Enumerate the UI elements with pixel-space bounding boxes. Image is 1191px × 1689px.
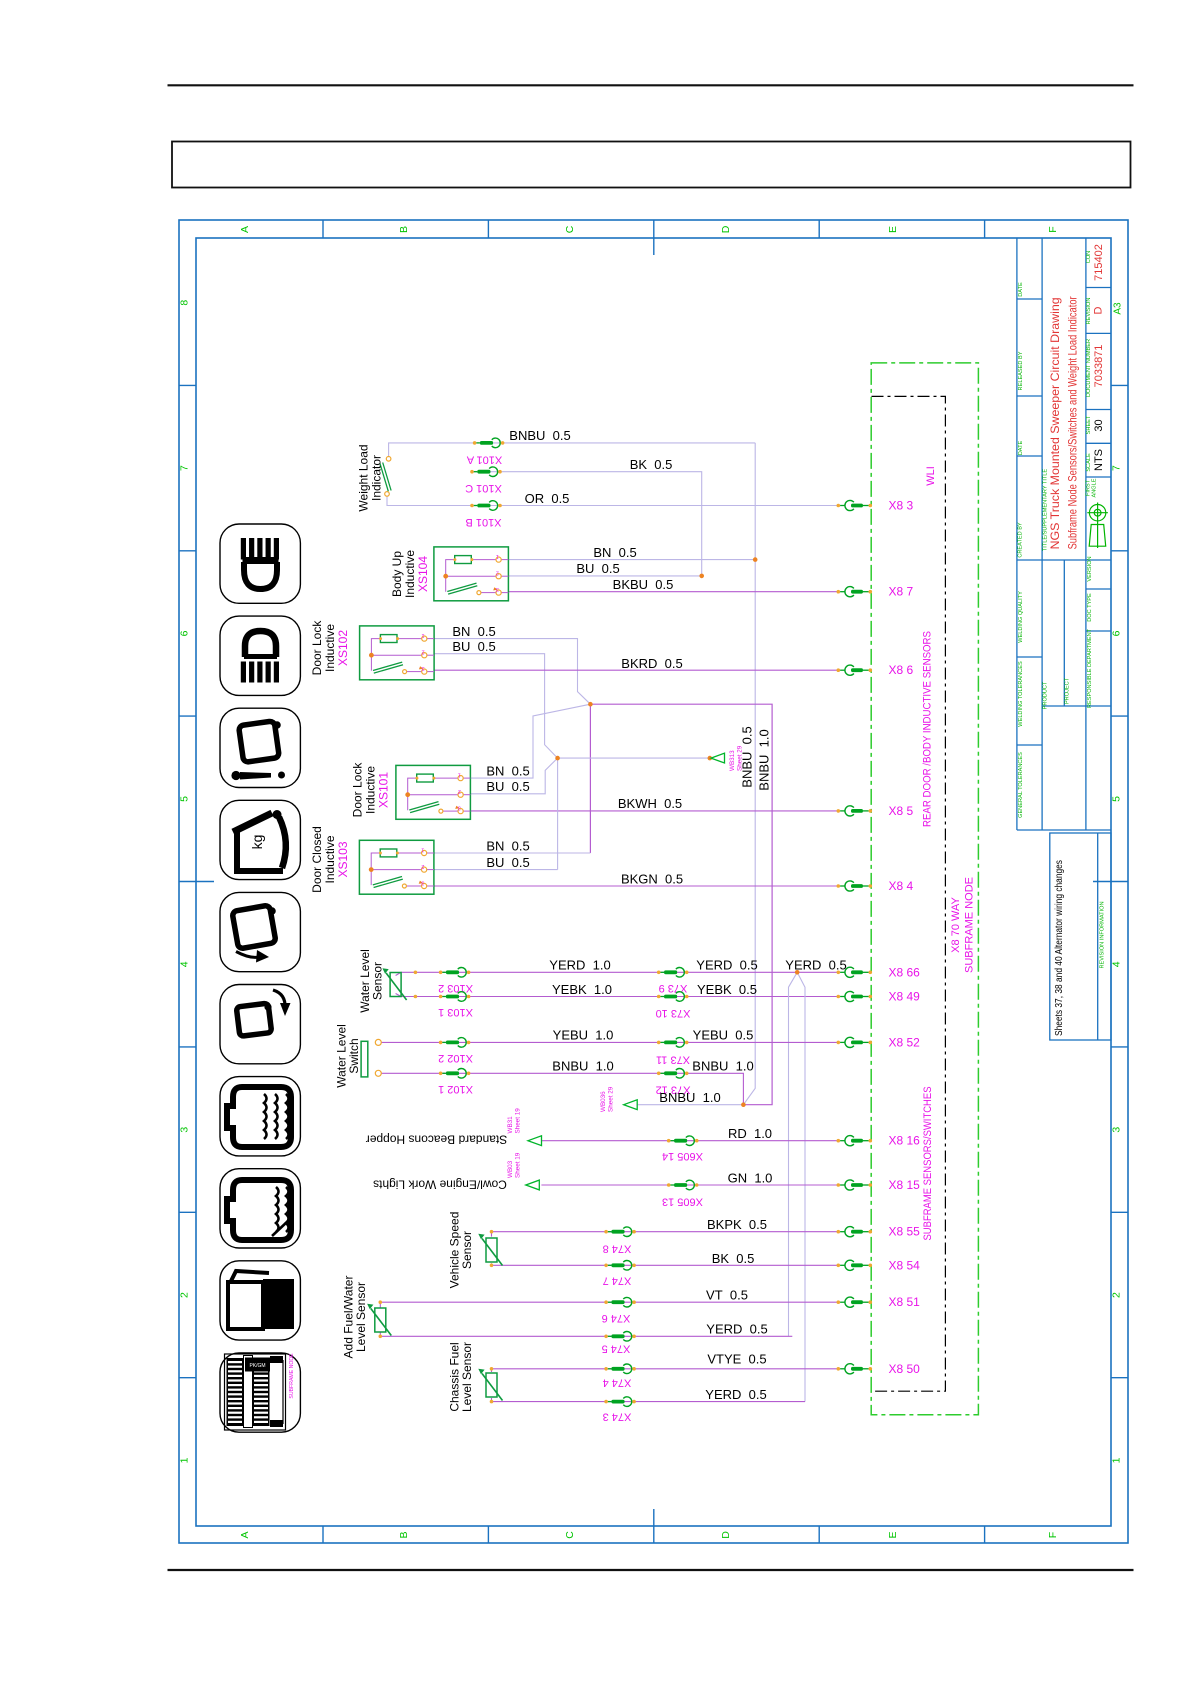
connector pin X8 66 <box>837 971 841 975</box>
inductive sensor XS104 (Body Up) <box>434 547 509 601</box>
wire vertical BNBU 0.5 bus down to sheet-29 junction <box>743 443 755 1105</box>
svg-text:Standard Beacons Hopper: Standard Beacons Hopper <box>366 1133 507 1147</box>
frame grid ticks top/bottom <box>322 220 324 238</box>
svg-text:A3: A3 <box>1113 302 1124 315</box>
svg-text:C: C <box>564 1531 576 1539</box>
svg-text:X605 14: X605 14 <box>662 1150 703 1162</box>
connector X74 7 <box>604 1264 608 1268</box>
off-sheet arrow WB313 Sheet 29 (BNBU 0.5) <box>711 753 725 763</box>
wire OR 0.5 from weight load indicator to X8 3 <box>387 494 838 506</box>
svg-text:2: 2 <box>1111 1292 1123 1298</box>
svg-text:WELDING QUALITY: WELDING QUALITY <box>1018 591 1024 643</box>
wire VT 0.5 add fuel/water level sensor to X8 51 <box>380 1302 838 1308</box>
connector pin X8 49 <box>837 995 841 999</box>
wire BN 0.5 XS103 pin1 <box>434 852 591 854</box>
svg-text:X8 55: X8 55 <box>889 1225 921 1239</box>
svg-text:YERD 0.5: YERD 0.5 <box>705 1387 766 1402</box>
svg-text:Inductive: Inductive <box>323 624 337 672</box>
svg-text:1: 1 <box>422 632 425 638</box>
svg-text:GN 1.0: GN 1.0 <box>728 1171 773 1186</box>
connector X605 13 <box>667 1183 671 1187</box>
icon: weight load kg <box>220 800 300 879</box>
svg-text:7: 7 <box>179 465 191 471</box>
svg-text:D: D <box>720 1531 732 1539</box>
icon: water tank level <box>220 1077 300 1156</box>
svg-text:3: 3 <box>179 1127 191 1133</box>
svg-text:3: 3 <box>458 805 461 811</box>
off-sheet arrow WB31 Sheet 19 (RD 1.0) <box>528 1136 542 1146</box>
svg-text:YEBU 0.5: YEBU 0.5 <box>693 1028 754 1043</box>
connector pin X8 50 <box>837 1367 841 1371</box>
svg-text:X8 52: X8 52 <box>889 1035 921 1049</box>
svg-text:X74 4: X74 4 <box>603 1377 632 1389</box>
svg-text:X8 6: X8 6 <box>889 663 914 677</box>
svg-text:BN 0.5: BN 0.5 <box>486 764 529 779</box>
svg-text:E: E <box>887 1531 899 1538</box>
svg-text:SUBFRAME SENSORS/SWITCHES: SUBFRAME SENSORS/SWITCHES <box>922 1087 934 1241</box>
svg-text:3: 3 <box>422 665 425 671</box>
connector pin X8 55 <box>837 1230 841 1234</box>
subframe node green dash-dot boundary <box>871 363 978 1415</box>
wire YEBU water level switch to X8 52 <box>381 1041 838 1043</box>
connector X101 B <box>470 504 474 508</box>
wire YERD 0.5 add fuel/water level sensor branch <box>380 1332 792 1336</box>
svg-text:Sensor: Sensor <box>371 962 385 1000</box>
svg-text:X8 16: X8 16 <box>889 1134 921 1148</box>
svg-text:X74 5: X74 5 <box>602 1343 631 1355</box>
connector pin X8 4 <box>837 884 841 888</box>
svg-text:BKPK 0.5: BKPK 0.5 <box>707 1217 767 1232</box>
wire BKPK 0.5 vehicle speed sensor to X8 55 <box>492 1232 839 1237</box>
icon: hopper tilt up warning <box>220 985 300 1064</box>
svg-text:REVISION: REVISION <box>1086 298 1092 325</box>
svg-text:X605 13: X605 13 <box>662 1196 703 1208</box>
svg-text:X101 C: X101 C <box>465 482 502 494</box>
svg-text:REAR DOOR /BODY INDUCTIVE SENS: REAR DOOR /BODY INDUCTIVE SENSORS <box>922 631 934 827</box>
icon: water tank low level <box>220 1169 300 1248</box>
wire BNBU 0.5 J2 to off-sheet arrow <box>558 757 710 759</box>
svg-text:Sheet 19: Sheet 19 <box>515 1108 522 1134</box>
svg-text:X74 3: X74 3 <box>603 1411 632 1423</box>
svg-text:YERD 1.0: YERD 1.0 <box>549 958 610 973</box>
svg-text:BU 0.5: BU 0.5 <box>486 855 529 870</box>
svg-text:BKGN 0.5: BKGN 0.5 <box>621 872 683 887</box>
connector X73 12 <box>657 1072 661 1076</box>
svg-text:BU 0.5: BU 0.5 <box>452 639 495 654</box>
svg-text:3: 3 <box>496 586 499 592</box>
wire RD 1.0 off-sheet arrow to X8 16 <box>541 1140 838 1142</box>
svg-text:BNBU 0.5: BNBU 0.5 <box>740 726 755 787</box>
svg-text:715402: 715402 <box>1093 244 1105 281</box>
svg-text:BU 0.5: BU 0.5 <box>576 561 619 576</box>
wire BU 0.5 XS104 pin2 to BK junction <box>508 575 701 577</box>
svg-text:DATE: DATE <box>1018 440 1024 455</box>
svg-text:ANGLE: ANGLE <box>1092 478 1098 497</box>
svg-text:Inductive: Inductive <box>323 835 337 883</box>
svg-text:1: 1 <box>458 772 461 778</box>
svg-text:Subframe Node Sensors/Switches: Subframe Node Sensors/Switches and Weigh… <box>1066 296 1080 549</box>
svg-text:X8 7: X8 7 <box>889 585 914 599</box>
page header box <box>172 142 1131 188</box>
svg-text:1: 1 <box>179 1457 191 1463</box>
svg-text:BNBU 1.0: BNBU 1.0 <box>659 1090 720 1105</box>
connector X74 8 <box>604 1230 608 1234</box>
frame grid ticks left/right <box>179 384 196 386</box>
connector X73 9 <box>657 971 661 975</box>
icon: hopper tilt down warning <box>220 892 300 971</box>
connector pin X8 16 <box>837 1139 841 1143</box>
connector pin X8 7 <box>837 590 841 594</box>
connector pin X8 51 <box>837 1300 841 1304</box>
svg-text:4: 4 <box>179 961 191 967</box>
wire BK 0.5 vehicle speed sensor to X8 54 <box>492 1263 839 1265</box>
wire BK 0.5 from X101 C <box>473 472 702 576</box>
water level switch symbol <box>361 1041 368 1077</box>
wire BNBU 0.5 from weight load indicator to junction (X101 A net) <box>389 443 756 459</box>
icon: hopper raised warning <box>220 708 300 787</box>
svg-text:X8 49: X8 49 <box>889 990 921 1004</box>
svg-text:RELEASED BY: RELEASED BY <box>1018 351 1024 390</box>
junction J2 BU chain <box>555 756 560 761</box>
svg-text:2: 2 <box>179 1292 191 1298</box>
svg-text:7033871: 7033871 <box>1093 345 1105 388</box>
wire BNBU 1.0 from junction J1 to sheet-29 junction J3 (magenta) <box>590 704 772 1104</box>
svg-text:Inductive: Inductive <box>403 550 417 598</box>
wire YEBK water level sensor to X8 49 <box>396 994 838 997</box>
svg-text:WLI: WLI <box>925 466 937 486</box>
wire BU chain J2 down to XS103 pin2 <box>557 758 559 870</box>
svg-text:RD 1.0: RD 1.0 <box>728 1126 772 1141</box>
svg-text:SUBFRAME NODE: SUBFRAME NODE <box>964 877 976 973</box>
svg-text:WELDING TOLERANCES: WELDING TOLERANCES <box>1018 661 1024 727</box>
icon: main beam headlight <box>220 616 300 695</box>
svg-text:PROJECT: PROJECT <box>1065 677 1071 704</box>
svg-text:BNBU 1.0: BNBU 1.0 <box>757 729 772 790</box>
wire BKRD 0.5 XS102 pin3 to X8 6 <box>434 669 838 671</box>
wire BKBU 0.5 XS104 pin3 to X8 7 <box>508 591 838 593</box>
svg-text:1: 1 <box>421 847 424 853</box>
svg-text:SUBFRAME NODE: SUBFRAME NODE <box>289 1353 295 1399</box>
connector pin X8 5 <box>837 809 841 813</box>
svg-text:X101 A: X101 A <box>466 454 502 466</box>
svg-text:REVISION INFORMATION: REVISION INFORMATION <box>1100 901 1106 968</box>
svg-text:X102 1: X102 1 <box>438 1083 473 1095</box>
svg-text:F: F <box>1047 1532 1059 1538</box>
svg-text:X102 2: X102 2 <box>438 1052 473 1064</box>
svg-text:XS103: XS103 <box>336 841 350 877</box>
wire YERD 0.5 split junction to X74 5 branch <box>789 972 798 1336</box>
svg-text:X74 7: X74 7 <box>603 1275 632 1287</box>
connector X74 3 <box>604 1400 608 1404</box>
svg-text:1: 1 <box>496 553 499 559</box>
svg-text:A: A <box>239 1531 251 1538</box>
svg-text:X103 2: X103 2 <box>438 982 473 994</box>
water level sensor pin dots <box>414 971 418 975</box>
svg-text:NTS: NTS <box>1093 449 1105 471</box>
svg-text:SCALE: SCALE <box>1086 453 1092 472</box>
svg-text:X8 66: X8 66 <box>889 965 921 979</box>
svg-text:2: 2 <box>458 788 461 794</box>
connector X102 1 <box>439 1072 443 1076</box>
svg-text:RESPONSIBLE DEPARTMENT: RESPONSIBLE DEPARTMENT <box>1087 628 1093 708</box>
svg-text:XS104: XS104 <box>416 556 430 592</box>
connector X74 4 <box>604 1367 608 1371</box>
svg-text:BKBU 0.5: BKBU 0.5 <box>613 577 674 592</box>
drawing frame outer border <box>179 220 1128 1543</box>
svg-text:SHEET: SHEET <box>1086 415 1092 434</box>
svg-text:F: F <box>1047 226 1059 232</box>
svg-text:Inductive: Inductive <box>364 766 378 814</box>
connector X605 14 <box>667 1139 671 1143</box>
svg-text:X8 15: X8 15 <box>889 1178 921 1192</box>
wire YERD water level sensor to X8 66 <box>396 972 838 975</box>
svg-text:kg: kg <box>249 835 265 850</box>
wire BNBU 1.0 J3 to off-sheet arrow <box>637 1104 743 1106</box>
svg-text:5: 5 <box>1111 796 1123 802</box>
svg-text:E: E <box>887 226 899 233</box>
title block grid lines <box>1016 238 1018 830</box>
wire BN chain J1 down to XS103 pin1 <box>589 704 591 853</box>
svg-text:BNBU 1.0: BNBU 1.0 <box>692 1059 753 1074</box>
svg-text:GENERAL TOLERANCES: GENERAL TOLERANCES <box>1018 752 1024 818</box>
svg-text:Sheet 19: Sheet 19 <box>515 1152 522 1178</box>
variable resistor chassis fuel level sensor <box>486 1373 497 1397</box>
first angle projection symbol <box>1089 505 1105 521</box>
wire BKGN 0.5 XS103 pin3 to X8 4 <box>434 885 838 887</box>
page bottom rule <box>168 1569 1134 1571</box>
off-sheet arrow WB036 Sheet 29 (BNBU 1.0) <box>624 1100 638 1110</box>
icon: fuel level <box>220 1261 300 1340</box>
off-sheet arrow WB03 Sheet 19 (GN 1.0) <box>526 1180 540 1190</box>
svg-text:X74 6: X74 6 <box>602 1312 631 1324</box>
connector X73 10 <box>657 995 661 999</box>
svg-text:2: 2 <box>422 649 425 655</box>
svg-text:Weight Load: Weight Load <box>357 444 371 511</box>
svg-text:X73 9: X73 9 <box>659 982 688 994</box>
svg-text:X8 50: X8 50 <box>889 1362 921 1376</box>
connector X101 A <box>473 441 477 445</box>
svg-text:YERD 0.5: YERD 0.5 <box>785 958 846 973</box>
svg-text:Sheet 29: Sheet 29 <box>608 1086 615 1112</box>
svg-text:6: 6 <box>179 630 191 636</box>
svg-text:WB03: WB03 <box>507 1160 514 1178</box>
svg-text:BNBU 0.5: BNBU 0.5 <box>509 428 570 443</box>
connector X102 2 <box>439 1041 443 1045</box>
svg-text:Door Closed: Door Closed <box>310 826 324 893</box>
wire YERD 0.5 split junction to X74 3 branch <box>797 972 805 1401</box>
svg-text:A: A <box>239 226 251 233</box>
connector X74 6 <box>604 1300 608 1304</box>
svg-text:BN 0.5: BN 0.5 <box>486 839 529 854</box>
connector X103 1 <box>439 995 443 999</box>
svg-text:WB036: WB036 <box>600 1091 607 1112</box>
svg-text:3: 3 <box>421 880 424 886</box>
junction YERD split <box>795 970 800 975</box>
svg-text:DOCUMENT NUMBER: DOCUMENT NUMBER <box>1086 339 1092 397</box>
svg-text:Level Sensor: Level Sensor <box>354 1282 368 1352</box>
icon: dipped beam headlight <box>220 524 300 603</box>
svg-text:WB31: WB31 <box>507 1116 514 1134</box>
svg-text:2: 2 <box>496 570 499 576</box>
wire BKWH 0.5 XS101 pin3 to X8 5 <box>470 810 838 812</box>
wire VTYE 0.5 chassis fuel level sensor to X8 50 <box>492 1369 839 1372</box>
junction BNBU bus / XS104 BN <box>753 557 758 562</box>
svg-text:WB313: WB313 <box>729 750 736 771</box>
svg-text:X8 70 WAY: X8 70 WAY <box>950 897 962 953</box>
wire BU 0.5 XS101 pin2 to junction J2 <box>470 758 557 794</box>
svg-text:BN 0.5: BN 0.5 <box>452 624 495 639</box>
svg-text:Switch: Switch <box>347 1038 361 1073</box>
connector pin X8 3 <box>837 504 841 508</box>
svg-text:3: 3 <box>1111 1127 1123 1133</box>
wire BNBU 1.0 water level switch to J3 <box>381 1073 743 1104</box>
variable resistor vehicle speed sensor <box>486 1238 497 1262</box>
svg-text:DOC TYPE: DOC TYPE <box>1087 593 1093 622</box>
svg-text:B: B <box>398 1531 410 1538</box>
svg-text:6: 6 <box>1111 630 1123 636</box>
svg-text:X8 4: X8 4 <box>889 879 914 893</box>
svg-text:CREATED BY: CREATED BY <box>1018 522 1024 558</box>
svg-text:YEBU 1.0: YEBU 1.0 <box>553 1028 614 1043</box>
wire BU 0.5 XS103 pin2 <box>434 869 558 871</box>
svg-text:Door Lock: Door Lock <box>310 620 324 676</box>
svg-text:5: 5 <box>179 796 191 802</box>
svg-text:X103 1: X103 1 <box>438 1006 473 1018</box>
svg-text:BU 0.5: BU 0.5 <box>486 779 529 794</box>
connector X74 5 <box>604 1335 608 1339</box>
wire BN 0.5 XS104 pin1 to BNBU bus junction <box>508 559 755 561</box>
connector X73 11 <box>657 1041 661 1045</box>
svg-text:XS102: XS102 <box>336 630 350 666</box>
svg-text:Cowl/Engine Work Lights: Cowl/Engine Work Lights <box>373 1178 507 1192</box>
connector X103 2 <box>439 971 443 975</box>
frame centre fold marks <box>653 238 655 255</box>
svg-text:BKWH 0.5: BKWH 0.5 <box>618 796 682 811</box>
svg-text:X8 54: X8 54 <box>889 1258 921 1272</box>
svg-text:Sensor: Sensor <box>460 1231 474 1269</box>
svg-text:BN 0.5: BN 0.5 <box>593 545 636 560</box>
svg-text:VTYE 0.5: VTYE 0.5 <box>707 1352 766 1367</box>
wire BN 0.5 XS102 pin1 to junction J1 <box>434 639 590 705</box>
inductive sensor XS101 (Door Lock) <box>396 765 471 819</box>
junction J1 BN chain <box>588 702 593 707</box>
connector pin X8 15 <box>837 1183 841 1187</box>
connector pin X8 52 <box>837 1041 841 1045</box>
svg-text:BK 0.5: BK 0.5 <box>630 457 673 472</box>
svg-text:2: 2 <box>421 863 424 869</box>
variable resistor add fuel/water level sensor <box>375 1308 386 1332</box>
svg-text:D: D <box>720 225 732 233</box>
X8 connector black dash-dot boundary <box>872 396 946 1391</box>
svg-text:BNBU 1.0: BNBU 1.0 <box>552 1059 613 1074</box>
svg-text:D: D <box>1093 306 1105 314</box>
svg-text:X8 3: X8 3 <box>889 499 914 513</box>
svg-text:YEBK 0.5: YEBK 0.5 <box>697 982 757 997</box>
svg-text:X8 5: X8 5 <box>889 804 914 818</box>
connector X101 C <box>470 470 474 474</box>
variable resistor water level sensor <box>390 973 401 997</box>
wire BU 0.5 XS102 pin2 to junction J2 <box>434 654 557 758</box>
svg-text:X73 10: X73 10 <box>656 1007 691 1019</box>
icon: subframe node connector <box>220 1353 300 1432</box>
svg-text:YEBK 1.0: YEBK 1.0 <box>552 982 612 997</box>
svg-text:NGS Truck Mounted Sweeper Circ: NGS Truck Mounted Sweeper Circuit Drawin… <box>1048 297 1062 549</box>
svg-text:Body Up: Body Up <box>390 551 404 597</box>
svg-text:4: 4 <box>1111 961 1123 967</box>
junction J3 BNBU 1.0 <box>741 1102 746 1107</box>
junction J2 arrow node <box>708 756 713 761</box>
inductive sensor XS102 (Door Lock) <box>360 626 435 680</box>
svg-text:X73 11: X73 11 <box>656 1054 690 1066</box>
svg-text:7: 7 <box>1111 465 1123 471</box>
svg-text:30: 30 <box>1093 419 1105 431</box>
wire YERD 0.5 chassis fuel level sensor branch <box>492 1398 806 1402</box>
inductive sensor XS103 (Door Closed) <box>359 840 434 894</box>
svg-text:VERSION: VERSION <box>1087 556 1093 581</box>
svg-text:B: B <box>398 226 410 233</box>
svg-text:XS101: XS101 <box>377 772 391 808</box>
svg-text:OR 0.5: OR 0.5 <box>525 491 570 506</box>
svg-text:BKRD 0.5: BKRD 0.5 <box>621 656 682 671</box>
svg-text:8: 8 <box>179 300 191 306</box>
svg-text:VT 0.5: VT 0.5 <box>706 1288 748 1303</box>
svg-text:Level Sensor: Level Sensor <box>460 1342 474 1412</box>
svg-text:C: C <box>564 225 576 233</box>
svg-text:PK/GM: PK/GM <box>249 1363 265 1369</box>
svg-text:DATE: DATE <box>1018 282 1024 297</box>
drawing frame inner border <box>196 238 1111 1526</box>
svg-text:X8 51: X8 51 <box>889 1295 921 1309</box>
wire BN 0.5 XS101 pin1 to junction J1 <box>470 704 590 778</box>
weight load indicator lamp symbol <box>380 463 391 492</box>
wire GN 1.0 off-sheet arrow to X8 15 <box>541 1184 838 1186</box>
svg-text:Door Lock: Door Lock <box>351 762 365 818</box>
svg-text:YERD 0.5: YERD 0.5 <box>696 958 757 973</box>
svg-text:CON: CON <box>1086 251 1092 263</box>
connector pin X8 6 <box>837 668 841 672</box>
junction BK / XS104 BU <box>699 574 704 579</box>
svg-text:X74 8: X74 8 <box>603 1243 632 1255</box>
svg-text:1: 1 <box>1111 1457 1123 1463</box>
svg-text:Indicator: Indicator <box>370 455 384 501</box>
svg-text:Sheets 37, 38 and 40 Alternato: Sheets 37, 38 and 40 Alternator wiring c… <box>1054 860 1065 1036</box>
svg-text:X101 B: X101 B <box>465 516 501 528</box>
connector pin X8 54 <box>837 1264 841 1268</box>
revision information box <box>1050 833 1111 1040</box>
svg-text:BK 0.5: BK 0.5 <box>712 1251 755 1266</box>
svg-text:PRODUCT: PRODUCT <box>1043 681 1049 709</box>
page top rule <box>168 84 1134 86</box>
svg-text:YERD 0.5: YERD 0.5 <box>706 1322 767 1337</box>
